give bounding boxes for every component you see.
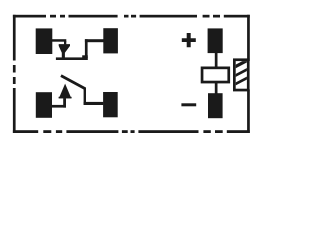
NO contact open blade (diagonal) (60, 74, 86, 90)
wire from coil down to P6 (215, 83, 218, 95)
stub from wire down to NC arrow (64, 41, 66, 44)
terminal pad P2 (top-middle, NC contact fixed side) (103, 28, 118, 53)
wire riser from fixed bar up to P2 wire (85, 39, 88, 57)
relay case outline: right border (solid, interrupted by orientation mark) (247, 15, 250, 133)
relay case outline: left border (dash-dot) (13, 15, 16, 133)
relay case outline: top border (dash-dot) (13, 15, 250, 18)
NO contact arrow base flare (59, 97, 72, 99)
relay case outline: bottom border (dash-dot) (13, 130, 250, 133)
NC contact rivet bump (82, 55, 88, 58)
NC contact fixed bar (56, 57, 88, 60)
NC contact movable arm arrow (down funnel) (59, 44, 70, 57)
terminal pad P5 (coil +) (208, 28, 223, 53)
terminal pad P4 (bottom-middle, NO contact fixed side) (103, 92, 118, 117)
wire from P1 to NC arrow (52, 39, 66, 42)
NO contact arrow stem (63, 98, 66, 107)
wire from riser to P4 (84, 102, 104, 105)
minus polarity label (181, 103, 196, 106)
wire from P5 down to coil (215, 53, 218, 68)
terminal pad P1 (top-left, NC contact movable side) (36, 28, 53, 54)
wire riser from blade down to P4 wire (84, 88, 86, 105)
plus polarity label (182, 33, 196, 47)
terminal pad P6 (coil −) (208, 93, 223, 118)
wire from P3 to NO arrow stem (52, 105, 66, 108)
wire from riser to P2 (85, 39, 104, 42)
terminal pad P3 (bottom-left, NO contact movable side) (36, 92, 52, 118)
case orientation mark (hatched box on right border) (230, 58, 252, 90)
NO contact arrow (up triangle) (59, 84, 71, 99)
coil (202, 68, 229, 82)
